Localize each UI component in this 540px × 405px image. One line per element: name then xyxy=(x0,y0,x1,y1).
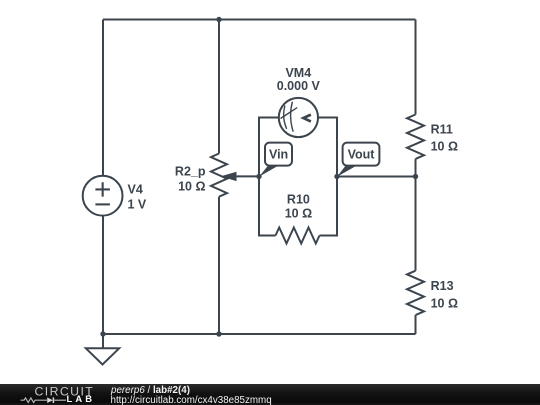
svg-text:R2_p: R2_p xyxy=(175,164,206,178)
svg-text:LAB: LAB xyxy=(67,393,96,404)
wire potentiometer branch lower xyxy=(218,197,220,334)
wire right vertical middle xyxy=(415,159,417,271)
svg-text:Vin: Vin xyxy=(269,148,288,162)
wire top rail xyxy=(103,19,416,21)
wire right vertical lower xyxy=(415,315,417,334)
svg-text:R13: R13 xyxy=(431,279,454,293)
wire VM4 left lead xyxy=(259,118,279,177)
node Vin junction xyxy=(256,174,261,179)
resistor R10 xyxy=(276,228,320,244)
svg-text:10 Ω: 10 Ω xyxy=(431,139,458,153)
node top pot junction xyxy=(216,17,221,22)
svg-text:10 Ω: 10 Ω xyxy=(285,207,312,221)
node Vout junction xyxy=(334,174,339,179)
svg-text:V4: V4 xyxy=(128,183,143,197)
wire right vertical upper xyxy=(415,20,417,115)
svg-text:1 V: 1 V xyxy=(128,198,147,212)
logo CIRCUIT LAB xyxy=(21,384,95,403)
wire VM4 right lead xyxy=(318,118,337,177)
voltage source V4 xyxy=(83,176,123,216)
node Vout flag xyxy=(337,143,379,177)
svg-text:Vout: Vout xyxy=(348,148,376,162)
node right rail junction xyxy=(413,174,418,179)
ground xyxy=(86,348,119,364)
wire left vertical lower xyxy=(102,216,104,334)
svg-text:0.000 V: 0.000 V xyxy=(277,79,321,93)
wire potentiometer branch upper xyxy=(218,20,220,154)
resistor R13 xyxy=(407,271,424,315)
potentiometer wiper arrow xyxy=(221,172,237,181)
wire ground stub xyxy=(102,334,104,348)
wire Vout to right rail xyxy=(337,176,416,178)
node Vin flag xyxy=(259,143,292,177)
svg-text:VM4: VM4 xyxy=(285,66,311,80)
svg-text:R10: R10 xyxy=(287,192,310,206)
svg-text:http://circuitlab.com/cx4v38e8: http://circuitlab.com/cx4v38e85zmmq xyxy=(111,395,272,405)
wire left vertical upper xyxy=(102,20,104,176)
node bottom pot junction xyxy=(216,331,221,336)
wire R10 left lead xyxy=(259,177,276,236)
svg-text:R11: R11 xyxy=(431,123,453,137)
wire bottom rail xyxy=(103,333,416,335)
resistor R11 xyxy=(407,115,424,159)
svg-text:10 Ω: 10 Ω xyxy=(178,180,205,194)
wire wiper to Vin node xyxy=(234,175,259,177)
potentiometer R2_p xyxy=(211,154,227,197)
svg-text:10 Ω: 10 Ω xyxy=(431,297,458,311)
wire R10 right lead xyxy=(320,177,338,236)
voltmeter VM4 xyxy=(279,98,318,137)
node ground junction xyxy=(100,331,105,336)
